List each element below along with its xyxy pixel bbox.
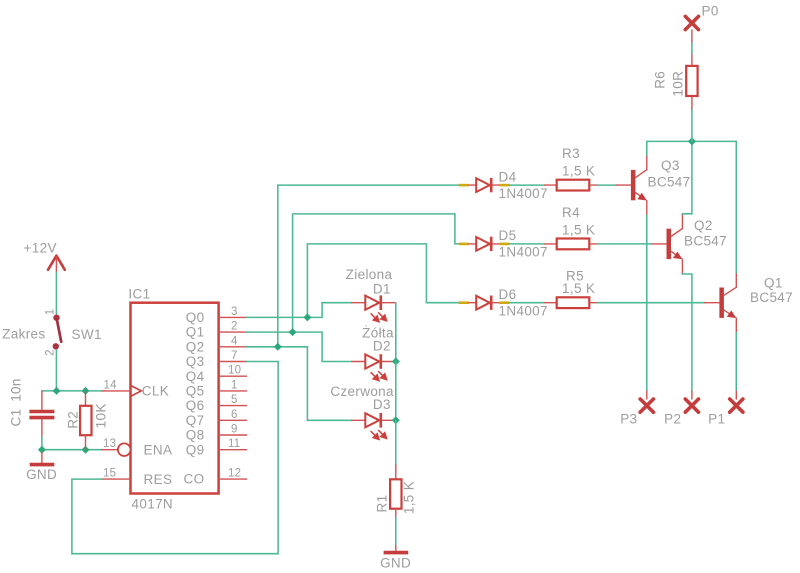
junction at R2 top <box>82 387 90 395</box>
svg-text:CLK: CLK <box>142 384 169 399</box>
pin 9 Q8 <box>219 434 247 436</box>
svg-text:12: 12 <box>228 468 241 480</box>
svg-text:15: 15 <box>103 467 116 479</box>
svg-text:R1: R1 <box>374 495 389 513</box>
LED D2 Zolta <box>352 326 396 381</box>
pin 3 Q0 <box>219 316 247 318</box>
resistor R5 1,5 K <box>557 269 598 309</box>
pad P1 <box>708 391 743 426</box>
junction at R2 bottom <box>82 446 90 454</box>
pad P2 <box>664 391 698 426</box>
svg-text:1N4007: 1N4007 <box>499 245 548 260</box>
svg-text:5: 5 <box>231 394 238 406</box>
svg-text:BC547: BC547 <box>648 175 691 190</box>
wire D5 to R4 <box>509 243 544 245</box>
resistor R2 10K <box>65 391 108 450</box>
svg-text:9: 9 <box>231 424 238 436</box>
transistor Q1 BC547 <box>705 273 793 333</box>
svg-text:10: 10 <box>228 365 241 377</box>
svg-text:BC547: BC547 <box>750 290 793 305</box>
junction D2 cathode <box>392 358 400 366</box>
wire Q3 emitter to P3 <box>646 215 648 391</box>
wire SW1 pin 2 to node <box>55 350 57 391</box>
ground GND below C1 <box>26 453 57 483</box>
wire D6 to R5 <box>509 302 544 304</box>
svg-text:Q4: Q4 <box>186 369 205 384</box>
ground GND below R1 <box>380 545 411 570</box>
pin 2 Q1 <box>219 331 247 333</box>
junction Q0 node <box>303 313 311 321</box>
svg-text:SW1: SW1 <box>72 327 102 342</box>
svg-text:1,5 K: 1,5 K <box>562 281 595 296</box>
LED D3 Czerwona <box>330 384 395 440</box>
pin 10 Q4 <box>219 375 247 377</box>
svg-text:10n: 10n <box>8 378 23 402</box>
svg-text:CO: CO <box>184 472 205 487</box>
junction at C1 bottom <box>38 446 46 454</box>
svg-text:Q2: Q2 <box>186 339 205 354</box>
wire Q1 collector to rail <box>735 141 737 272</box>
svg-text:10K: 10K <box>94 403 109 428</box>
net Q1 branch up to diode D5 <box>293 214 459 332</box>
svg-text:P1: P1 <box>708 411 725 426</box>
svg-text:1,5 K: 1,5 K <box>562 164 595 179</box>
wire Q2 emitter to P2 <box>682 274 692 391</box>
svg-text:R2: R2 <box>65 411 80 429</box>
wire R4 to Q2 base <box>598 243 652 245</box>
svg-text:13: 13 <box>103 438 116 450</box>
svg-text:Q8: Q8 <box>186 428 205 443</box>
svg-text:GND: GND <box>380 556 411 571</box>
svg-text:C1: C1 <box>8 409 23 427</box>
pin 14 CLK <box>102 390 131 392</box>
wire C1 to ENA node <box>41 437 43 450</box>
wire Q3 collector to rail <box>646 141 648 155</box>
wire ENA node row <box>42 449 102 451</box>
svg-text:D3: D3 <box>373 397 391 412</box>
transistor Q3 BC547 <box>616 155 690 215</box>
svg-text:Q7: Q7 <box>186 413 205 428</box>
svg-text:Q2: Q2 <box>694 218 713 233</box>
wire Q1 emitter to P1 <box>735 333 737 391</box>
IC1 4017N decade counter <box>102 287 247 512</box>
junction Q2 node <box>274 343 282 351</box>
svg-text:1: 1 <box>44 309 56 316</box>
svg-text:P2: P2 <box>664 411 681 426</box>
pin 13 ENA <box>102 449 118 451</box>
svg-text:1N4007: 1N4007 <box>499 303 548 318</box>
svg-text:D1: D1 <box>373 281 391 296</box>
svg-text:2: 2 <box>44 349 56 356</box>
wire node row to CLK <box>42 390 102 392</box>
capacitor C1 10n <box>8 378 54 437</box>
pad P3 <box>620 391 653 426</box>
junction rail / R6 <box>688 137 696 145</box>
resistor R6 10R <box>652 54 697 109</box>
resistor R3 1,5 K <box>557 146 598 191</box>
svg-text:Q3: Q3 <box>661 158 680 173</box>
wire Q3 pin7 to RES (reset loop) <box>72 362 278 554</box>
svg-text:11: 11 <box>228 438 240 450</box>
svg-text:D2: D2 <box>373 339 391 354</box>
resistor R1 1,5 K <box>374 465 416 518</box>
collector rail wire <box>647 140 737 142</box>
pin 1 Q5 <box>219 390 247 392</box>
svg-text:1,5 K: 1,5 K <box>562 222 595 237</box>
svg-text:1,5 K: 1,5 K <box>402 481 417 514</box>
wire rail to R6 <box>691 109 693 142</box>
svg-text:Q3: Q3 <box>186 354 205 369</box>
svg-text:Q1: Q1 <box>764 276 783 291</box>
LED D1 Zielona <box>346 267 396 322</box>
svg-text:Q6: Q6 <box>186 398 205 413</box>
svg-text:6: 6 <box>231 409 238 421</box>
svg-text:3: 3 <box>231 306 238 318</box>
svg-text:D5: D5 <box>499 228 517 243</box>
svg-text:1: 1 <box>231 379 238 391</box>
diode D6 1N4007 <box>459 287 548 319</box>
svg-text:D4: D4 <box>499 169 517 184</box>
svg-text:4: 4 <box>231 335 238 347</box>
transistor Q2 BC547 <box>652 214 727 274</box>
svg-text:BC547: BC547 <box>684 233 727 248</box>
junction at switch/CLK node <box>53 387 61 395</box>
junction D3 cathode <box>392 416 400 424</box>
svg-text:Q5: Q5 <box>186 384 205 399</box>
pin 4 Q2 <box>219 346 247 348</box>
net Q2 branch up to diode D4 <box>278 185 459 347</box>
wire R6 to P0 <box>691 42 693 54</box>
svg-text:D6: D6 <box>499 287 517 302</box>
svg-text:7: 7 <box>231 350 238 362</box>
svg-text:Q9: Q9 <box>186 442 205 457</box>
wire Q2 collector to rail junction <box>682 141 692 213</box>
net Q1: wire pin2 to LED D2 anode <box>247 332 352 361</box>
svg-text:Zielona: Zielona <box>346 267 393 282</box>
pin 12 CO <box>219 478 247 480</box>
svg-text:P0: P0 <box>702 4 719 19</box>
svg-text:R6: R6 <box>652 71 667 89</box>
svg-text:R3: R3 <box>562 146 580 161</box>
svg-text:IC1: IC1 <box>128 287 150 302</box>
svg-text:10R: 10R <box>671 71 686 97</box>
net Q2: wire pin4 to LED D3 anode <box>247 347 352 421</box>
diode D4 1N4007 <box>459 169 548 201</box>
net Q0: wire pin3 to LED D1 anode <box>247 303 352 318</box>
wire D2 cathode down to D3 <box>395 362 397 421</box>
svg-text:4017N: 4017N <box>132 496 174 511</box>
svg-text:Zakres: Zakres <box>2 327 45 342</box>
resistor R4 1,5 K <box>557 205 598 250</box>
pin 5 Q6 <box>219 405 247 407</box>
wire D3 cathode down to R1 <box>395 420 397 465</box>
pin 15 RES <box>102 478 131 480</box>
junction Q1 node <box>289 328 297 336</box>
pin 11 Q9 <box>219 449 247 451</box>
svg-text:R4: R4 <box>562 205 580 220</box>
wire R1 to GND <box>395 518 397 546</box>
supply +12V symbol <box>24 241 65 273</box>
wire R3 to Q3 base <box>598 184 617 186</box>
svg-text:GND: GND <box>26 467 57 482</box>
wire D1 cathode down to D2 <box>395 303 397 362</box>
wire D4 to R3 <box>509 184 544 186</box>
diode D5 1N4007 <box>459 228 548 260</box>
svg-text:+12V: +12V <box>24 241 57 256</box>
svg-text:2: 2 <box>231 321 238 333</box>
pad P0 <box>685 4 718 42</box>
wire +12V to SW1 pin 1 <box>55 272 57 314</box>
pin 7 Q3 <box>219 361 247 363</box>
svg-text:ENA: ENA <box>144 442 173 457</box>
pin 6 Q7 <box>219 419 247 421</box>
wire R5 to Q1 base <box>598 302 705 304</box>
net Q0 branch up to diode D6 <box>307 244 458 318</box>
svg-text:Q1: Q1 <box>186 325 205 340</box>
svg-text:1N4007: 1N4007 <box>499 186 548 201</box>
svg-text:P3: P3 <box>620 411 637 426</box>
svg-text:RES: RES <box>144 472 173 487</box>
switch SW1 (Zakres) <box>2 309 102 356</box>
svg-text:14: 14 <box>104 379 118 391</box>
svg-text:Q0: Q0 <box>186 310 205 325</box>
